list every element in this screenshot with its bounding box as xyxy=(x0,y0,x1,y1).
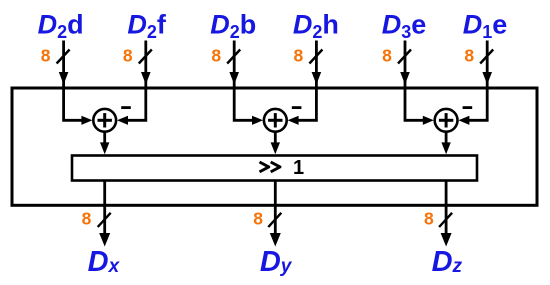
bus slash 2 xyxy=(139,50,152,64)
minus sign (adder 3 subtract input) xyxy=(463,106,473,109)
minus sign (adder 1 subtract input) xyxy=(121,106,131,109)
bus slash (output y) xyxy=(268,213,281,227)
svg-text:8: 8 xyxy=(82,209,92,229)
svg-text:8: 8 xyxy=(294,46,304,66)
minus sign (adder 2 subtract input) xyxy=(292,106,302,109)
wire: adder 1 output to shifter xyxy=(103,132,106,144)
shift block U4 (>> 1) xyxy=(72,156,477,181)
wire: right stub into adder 3 (subtrahend) xyxy=(469,80,488,120)
output wire z xyxy=(445,181,448,234)
wire: adder 3 output to shifter xyxy=(445,132,448,144)
svg-text:8: 8 xyxy=(464,46,474,66)
svg-text:1: 1 xyxy=(293,157,304,179)
input wire 1 xyxy=(62,41,65,75)
output wire y xyxy=(274,181,277,234)
bus slash 3 xyxy=(227,50,240,64)
bus slash 1 xyxy=(57,50,70,64)
input wire 4 xyxy=(315,41,318,75)
svg-text:8: 8 xyxy=(424,209,434,229)
wire: right stub into adder 2 (subtrahend) xyxy=(298,80,317,120)
svg-text:8: 8 xyxy=(253,209,263,229)
input wire 6 xyxy=(486,41,489,75)
wire: right stub into adder 1 (subtrahend) xyxy=(127,80,146,120)
outer block rectangle xyxy=(12,88,537,205)
bus slash (output x) xyxy=(98,213,111,227)
bus slash (output z) xyxy=(439,213,452,227)
bus slash 6 xyxy=(480,50,493,64)
bus slash 4 xyxy=(309,50,322,64)
input wire 3 xyxy=(233,41,236,75)
wire: left stub into adder 2 xyxy=(234,80,253,120)
adder U3 xyxy=(435,109,458,132)
bus slash 5 xyxy=(398,50,411,64)
wire: left stub into adder 3 xyxy=(405,80,424,120)
svg-text:8: 8 xyxy=(382,46,392,66)
svg-text:8: 8 xyxy=(123,46,133,66)
adder U1 xyxy=(93,109,116,132)
svg-text:8: 8 xyxy=(41,46,51,66)
output wire x xyxy=(103,181,106,234)
adder U2 xyxy=(264,109,287,132)
wire: left stub into adder 1 xyxy=(64,80,83,120)
input wire 2 xyxy=(144,41,147,75)
input wire 5 xyxy=(404,41,407,75)
wire: adder 2 output to shifter xyxy=(274,132,277,144)
svg-text:8: 8 xyxy=(211,46,221,66)
value label ">> 1" (chevrons) xyxy=(260,162,269,172)
